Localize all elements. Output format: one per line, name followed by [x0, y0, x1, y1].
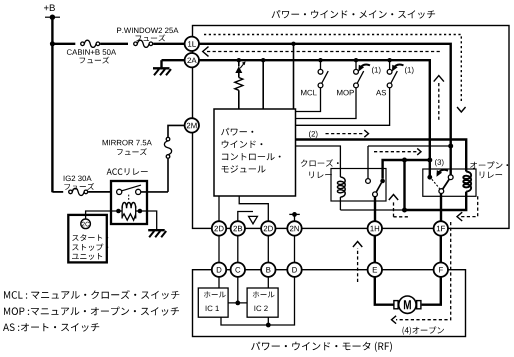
terminal 2D1: [212, 221, 226, 235]
terminal D2: [287, 263, 301, 277]
inductor ACC coil: [122, 203, 136, 209]
wire 2D1-D: [218, 236, 220, 263]
ground G2: [148, 229, 165, 231]
label module line3: [222, 153, 281, 160]
wire C to ICs: [237, 277, 239, 303]
flow arrow up mid: [438, 83, 440, 122]
label P.WINDOW2 25A: [117, 28, 178, 33]
wire ACC internals: [118, 210, 122, 212]
label MIRROR 7.5A: [103, 140, 152, 146]
flow dashed up from motor: [357, 248, 359, 282]
label fuse1 katakana: [80, 57, 110, 64]
wire +B to fuse CABIN: [52, 43, 75, 45]
flow arrow curved AS: [393, 65, 404, 69]
terminal 1H: [368, 221, 382, 235]
inductor close relay coil: [337, 177, 345, 197]
fuse P.WINDOW2 25A: [134, 42, 138, 46]
wire close NO thick: [383, 160, 430, 179]
box power window main switch: [193, 26, 510, 229]
fuse CABIN+B 50A: [81, 42, 85, 46]
label legend MCL: [4, 290, 179, 299]
label power window main switch title: [272, 10, 436, 19]
terminal D1: [212, 263, 226, 277]
wire module to 2D2: [239, 196, 268, 221]
fuse MIRROR 7.5A: [166, 137, 170, 141]
label fuse4 katakana: [64, 183, 94, 190]
switch MCL: [320, 60, 322, 69]
wire 2B-C: [237, 236, 239, 263]
label close relay: [301, 159, 339, 167]
label (1) MOP: [372, 67, 381, 74]
wire 2A ground stub: [162, 59, 185, 61]
node +B battery terminal: [44, 5, 55, 12]
box close relay: [331, 169, 386, 202]
box ACC relay: [111, 181, 147, 224]
wire 1L rail: [199, 44, 451, 175]
switch ACC relay: [117, 189, 122, 194]
label (4) open: [403, 327, 445, 335]
flow dashed open exit: [461, 196, 478, 216]
wire open pole to 1F: [440, 194, 442, 222]
wire B to IC2: [267, 277, 269, 288]
wire E to motor: [375, 277, 394, 305]
label fuse2 katakana: [136, 34, 166, 41]
box hall IC2: [247, 288, 278, 317]
wire module to close coil: [296, 146, 341, 171]
wire module to 2D1: [218, 196, 220, 221]
label ACC relay: [107, 168, 148, 175]
terminal 2D2: [261, 221, 275, 235]
node open NC: [427, 175, 432, 180]
terminal F: [434, 263, 448, 277]
wire 2A rail: [199, 60, 430, 175]
flow (2) label: [309, 131, 318, 138]
switch AS: [389, 60, 391, 69]
wire ACC switch to mirror: [141, 191, 168, 193]
wire close NC contact: [368, 145, 451, 147]
flow arrow curved MOP: [359, 65, 370, 69]
label legend MOP: [4, 307, 179, 316]
node signal arrow triangle: [249, 216, 258, 223]
label CABIN+B 50A: [67, 49, 116, 55]
wire 1F-F: [440, 236, 442, 263]
wire 2B to arrow: [238, 212, 253, 222]
wire ACC to ground: [140, 211, 157, 230]
flow dashed to 1L: [207, 51, 440, 53]
label module line1: [221, 128, 253, 136]
terminal C: [231, 263, 245, 277]
motor M1: [394, 301, 398, 309]
terminal 1L: [185, 37, 199, 51]
terminal 2A: [185, 53, 199, 67]
ground G1: [153, 67, 170, 69]
resistor R1 surge element: [238, 60, 240, 66]
wire D2 common: [221, 277, 295, 325]
terminal 2C: [81, 219, 91, 229]
box power window motor: [193, 270, 466, 337]
wire 2N-D: [294, 236, 296, 263]
fuse IG2 30A: [69, 190, 73, 194]
inductor open relay coil: [463, 172, 471, 192]
wire close pole to 1H: [374, 197, 376, 222]
flow dotted top: [204, 35, 461, 104]
label hall IC2: [253, 291, 275, 297]
flow dashed down to motor: [396, 222, 451, 320]
resistor ACC relay: [122, 214, 136, 220]
flow arrow down right: [457, 107, 466, 112]
wire +B vertical feed: [51, 17, 53, 192]
wire 2M to mirror fuse: [168, 125, 185, 136]
box power window control module: [214, 109, 296, 196]
label module line4: [222, 165, 266, 173]
flow (3) dashed arrow: [374, 151, 417, 153]
wire ACC to 2C: [86, 211, 119, 219]
label legend AS: [3, 323, 99, 332]
flow arrow curved open relay: [437, 170, 448, 174]
wire node X: [405, 160, 467, 210]
node 2N terminal bar: [294, 214, 296, 221]
wire module thick out: [296, 140, 467, 172]
wire F to motor: [422, 277, 441, 305]
terminal 1F: [434, 221, 448, 235]
box hall IC1: [198, 288, 228, 317]
label IG2 30A: [64, 176, 92, 182]
wire 2A branch to module: [262, 60, 264, 109]
terminal E: [368, 263, 382, 277]
box open relay: [423, 169, 476, 196]
label hall IC1: [204, 291, 226, 297]
flow (2) dashed arrow: [326, 133, 365, 135]
wire close coil to node: [340, 209, 404, 211]
box start stop unit: [68, 215, 107, 263]
label open relay: [470, 161, 508, 168]
label power window motor: [251, 342, 392, 352]
switch MOP: [355, 60, 357, 69]
flow dashed up to close pole: [394, 216, 409, 218]
label fuse3 katakana: [117, 148, 147, 155]
switch close relay arm: [376, 183, 381, 192]
wire 2D2-B: [267, 236, 269, 263]
terminal 2M: [185, 118, 199, 132]
wire D1 to IC1: [218, 277, 220, 288]
label module line2: [222, 140, 263, 148]
label start stop unit: [72, 234, 108, 241]
terminal 2N: [287, 221, 301, 235]
terminal B: [261, 263, 275, 277]
wire 1H-E: [374, 236, 376, 263]
wire IG2 feed: [52, 191, 63, 193]
node open NO: [448, 175, 453, 180]
switch open relay arm: [443, 179, 450, 189]
flow arrow left at 1L: [203, 47, 209, 57]
wire 1L branch to module: [293, 44, 295, 109]
label (1) AS: [405, 67, 414, 74]
terminal 2B: [231, 221, 245, 235]
